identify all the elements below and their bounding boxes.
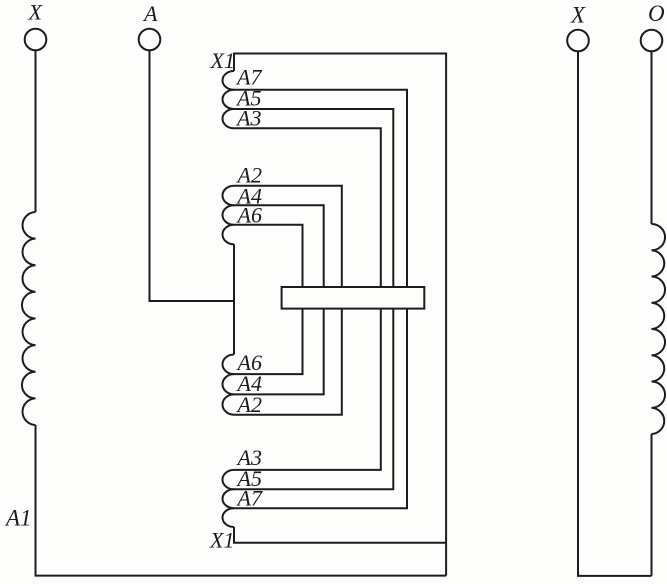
svg-text:X1: X1 (210, 48, 235, 73)
winding arc A5-A3 (223, 109, 235, 128)
svg-text:A2: A2 (236, 392, 262, 417)
terminal X (left) (25, 29, 47, 51)
tap selector bar (282, 287, 425, 309)
inductor L1 (left winding, 8 humps) (22, 212, 36, 425)
inductor L2 (right winding, 8 humps) (652, 224, 666, 434)
svg-text:X1: X1 (209, 528, 234, 553)
tap loop A7 (top lead, right vertical, bottom lead) (234, 90, 407, 508)
tap loop A6 (234, 225, 303, 374)
wire coil to bottom rail (36, 425, 447, 576)
svg-text:A7: A7 (236, 486, 263, 511)
winding arc A6 to center conductor (223, 225, 235, 245)
wire A lead to winding midpoint (150, 50, 235, 301)
tap loop A2 (234, 186, 342, 415)
tap loop A4 (234, 205, 324, 394)
winding arc X1-A7 (222, 71, 234, 90)
svg-text:A6: A6 (236, 202, 262, 227)
terminal X (right) (567, 30, 589, 52)
tap loop A3 (234, 128, 381, 470)
svg-text:O: O (648, 1, 665, 26)
tap loop A5 (234, 109, 393, 489)
winding arc A6-A4 lower (223, 374, 235, 394)
wire right X down and bottom link (578, 51, 652, 576)
winding arc A4-A2 lower (222, 394, 234, 414)
winding arc A7-A5 (223, 90, 234, 109)
winding arc A5-A7 bottom (222, 489, 234, 508)
wire coil to bottom (651, 434, 653, 576)
wire O lead to coil (651, 51, 653, 224)
svg-text:A1: A1 (4, 506, 32, 531)
winding arc A7-X1 bottom (223, 508, 235, 527)
winding arc A2-A4 (222, 186, 234, 206)
svg-text:A3: A3 (235, 106, 261, 131)
winding arc A3-A5 bottom (223, 470, 235, 489)
wire X1 bottom stub and line (234, 527, 446, 543)
terminal A (139, 29, 161, 51)
svg-text:X: X (28, 0, 44, 25)
winding arc A4-A6 (223, 205, 235, 225)
winding arc center to lower A6 (222, 355, 234, 375)
wire center conductor (233, 244, 235, 354)
wire X terminal to coil (35, 50, 37, 212)
terminal O (641, 30, 663, 52)
svg-text:A: A (142, 1, 158, 26)
wire X1 top line and outer right vertical (234, 54, 446, 576)
svg-text:X: X (570, 2, 586, 27)
